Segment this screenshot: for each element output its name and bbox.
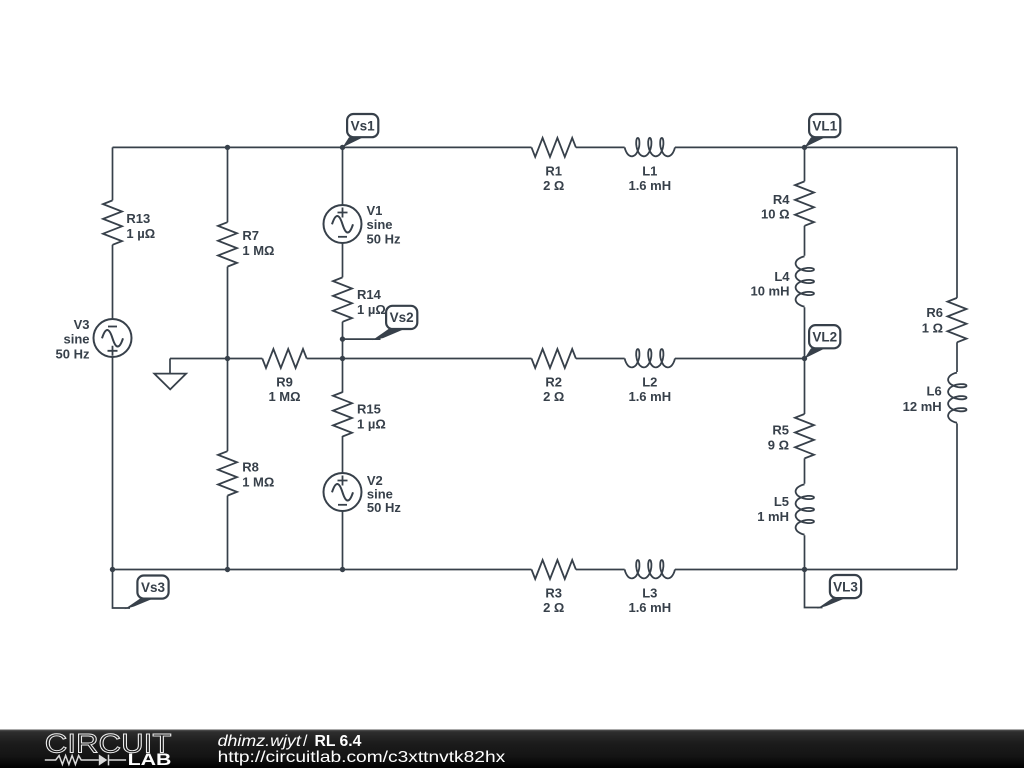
svg-text:V3: V3 bbox=[74, 317, 90, 332]
svg-text:L2: L2 bbox=[642, 374, 657, 389]
svg-text:R15: R15 bbox=[357, 401, 381, 416]
svg-text:9 Ω: 9 Ω bbox=[768, 438, 789, 453]
svg-text:R8: R8 bbox=[242, 459, 259, 474]
svg-text:R13: R13 bbox=[126, 211, 150, 226]
svg-text:Vs1: Vs1 bbox=[351, 118, 376, 133]
svg-text:1.6 mH: 1.6 mH bbox=[628, 600, 671, 615]
svg-text:50 Hz: 50 Hz bbox=[56, 347, 90, 362]
svg-text:R14: R14 bbox=[357, 287, 382, 302]
svg-text:/: / bbox=[303, 733, 308, 750]
svg-text:R7: R7 bbox=[242, 228, 259, 243]
svg-text:1 MΩ: 1 MΩ bbox=[268, 389, 300, 404]
svg-text:1.6 mH: 1.6 mH bbox=[628, 389, 671, 404]
svg-text:Vs3: Vs3 bbox=[141, 580, 166, 595]
svg-text:2 Ω: 2 Ω bbox=[543, 178, 564, 193]
svg-text:12 mH: 12 mH bbox=[903, 399, 942, 414]
svg-text:sine: sine bbox=[63, 332, 89, 347]
svg-text:1 Ω: 1 Ω bbox=[922, 321, 943, 336]
svg-text:sine: sine bbox=[367, 217, 393, 232]
svg-text:1 MΩ: 1 MΩ bbox=[242, 243, 274, 258]
svg-text:R4: R4 bbox=[773, 192, 790, 207]
svg-text:VL1: VL1 bbox=[812, 118, 837, 133]
svg-text:1 MΩ: 1 MΩ bbox=[242, 475, 274, 490]
svg-text:VL3: VL3 bbox=[833, 579, 858, 594]
svg-text:L6: L6 bbox=[927, 383, 942, 398]
svg-text:1 µΩ: 1 µΩ bbox=[126, 226, 155, 241]
svg-text:2 Ω: 2 Ω bbox=[543, 389, 564, 404]
svg-text:1 mH: 1 mH bbox=[757, 509, 789, 524]
svg-text:R3: R3 bbox=[545, 585, 562, 600]
svg-text:50 Hz: 50 Hz bbox=[367, 232, 401, 247]
svg-text:R5: R5 bbox=[772, 422, 789, 437]
svg-text:R6: R6 bbox=[926, 305, 943, 320]
svg-text:1 µΩ: 1 µΩ bbox=[357, 302, 386, 317]
svg-text:L3: L3 bbox=[642, 585, 657, 600]
svg-text:L4: L4 bbox=[774, 269, 790, 284]
svg-text:R1: R1 bbox=[545, 163, 562, 178]
svg-text:RL 6.4: RL 6.4 bbox=[315, 733, 362, 750]
svg-text:L5: L5 bbox=[774, 494, 789, 509]
svg-text:50 Hz: 50 Hz bbox=[367, 500, 401, 515]
svg-text:LAB: LAB bbox=[128, 751, 172, 768]
svg-text:R9: R9 bbox=[276, 374, 293, 389]
svg-text:Vs2: Vs2 bbox=[390, 310, 414, 325]
svg-text:VL2: VL2 bbox=[812, 330, 837, 345]
svg-text:10 mH: 10 mH bbox=[750, 283, 789, 298]
svg-text:L1: L1 bbox=[642, 163, 657, 178]
svg-text:1.6 mH: 1.6 mH bbox=[628, 178, 671, 193]
svg-text:2 Ω: 2 Ω bbox=[543, 600, 564, 615]
svg-text:1 µΩ: 1 µΩ bbox=[357, 417, 386, 432]
svg-text:R2: R2 bbox=[545, 374, 562, 389]
svg-text:dhimz.wjyt: dhimz.wjyt bbox=[218, 733, 302, 750]
svg-text:V1: V1 bbox=[367, 203, 383, 218]
svg-text:http://circuitlab.com/c3xttnvt: http://circuitlab.com/c3xttnvtk82hx bbox=[218, 749, 506, 766]
svg-text:10 Ω: 10 Ω bbox=[761, 206, 790, 221]
